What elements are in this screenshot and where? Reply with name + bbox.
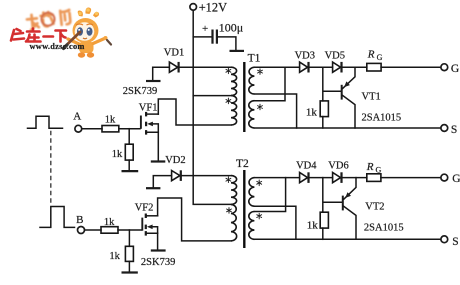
wire R5 to ground [128,261,130,271]
transistor VT2 2SA1015 [343,178,404,240]
resistor RG (top) [367,49,383,71]
node star T1 secondary w2 [258,104,263,110]
svg-text:2SA1015: 2SA1015 [364,223,404,234]
resistor R6 1k (T2) [307,212,329,231]
wire VD4 to VD6 [310,177,333,179]
wire junction drop to w2 top [254,67,285,101]
svg-text:1k: 1k [307,220,319,232]
wire R6 to S rail [322,228,324,239]
svg-text:S: S [451,124,457,136]
transistor VF1 [139,103,159,161]
svg-text:VD2: VD2 [165,155,185,166]
terminal +12V [190,0,227,14]
wire junction drop to 1k and VT1 base [323,67,341,101]
diode VD2 [165,155,185,181]
resistor R2 1k (pulldown A) [112,144,133,160]
svg-text:1k: 1k [306,107,318,119]
svg-text:VF2: VF2 [135,203,154,214]
svg-text:1k: 1k [109,251,120,262]
node star T1 primary w2 [226,98,231,104]
terminal S (bottom) [441,236,459,248]
terminal S (top) [441,124,457,136]
wire junction drop to 1k and VT2 base [323,178,343,213]
svg-text:S: S [452,236,458,248]
svg-text:VD5: VD5 [325,51,345,62]
svg-text:+: + [202,23,208,35]
svg-text:G: G [377,53,383,62]
diode VD3 [295,51,315,73]
transformer T1 [231,52,261,132]
svg-text:T1: T1 [248,52,261,64]
capacitor C1 100u [202,21,243,44]
svg-text:A: A [73,111,81,123]
wire VD2 anode to ground [153,176,171,187]
transistor VT1 2SA1015 [342,67,401,128]
wire +12V rail down to T2 center tap [193,10,231,204]
ground (R5) [122,271,138,273]
wire RG to G [381,66,441,68]
wire junction drop to w2 top [254,178,285,212]
wire T1 primary center tap [193,95,231,97]
svg-text:2SK739: 2SK739 [123,86,157,97]
terminal B [76,214,84,234]
wire A to R1 [82,128,102,130]
node star T1 secondary w1 [258,69,263,75]
wire cap branch [193,36,211,38]
wire RG to G [381,177,441,179]
svg-text:100μ: 100μ [219,21,243,35]
wire T1 sec w1 bottom to S rail [254,94,296,128]
svg-text:2SA1015: 2SA1015 [362,113,402,124]
terminal G (top) [441,63,459,75]
svg-text:+12V: +12V [199,0,227,14]
svg-text:1k: 1k [104,217,115,228]
wire VD3 to VD5 [310,66,333,68]
pulse waveform B [40,207,75,228]
svg-text:1k: 1k [105,115,116,126]
svg-text:VD4: VD4 [296,161,317,172]
wire T2 sec w1 top to VD4 [254,177,299,179]
diode VD4 [296,161,317,183]
node star T2 primary w2 [227,208,232,214]
wire VD1 anode to ground [153,67,170,80]
wire T1 sec w1 top to VD3 [254,66,299,68]
svg-text:G: G [452,173,460,185]
transformer T2 [231,158,254,248]
node star T2 primary w1 [226,177,231,183]
svg-text:VD1: VD1 [164,47,184,58]
diode VD6 [328,161,348,183]
svg-text:R: R [367,49,375,61]
wire R2 to ground [128,160,130,170]
svg-text:VD6: VD6 [328,161,348,172]
svg-text:VT2: VT2 [365,201,384,212]
wire VD1 to T1 primary w1 top (crosses rail) [180,66,231,68]
wire T2 sec w1 bottom to S rail [254,206,296,239]
wire S rail (bottom) [254,238,440,240]
resistor R4 1k (series B) [101,217,118,233]
wire cap to ground [218,37,236,50]
svg-text:VT1: VT1 [362,92,381,103]
svg-text:VF1: VF1 [139,103,158,114]
svg-text:VD3: VD3 [295,51,315,62]
node star T1 primary w1 [226,68,231,74]
ground (cap) [230,50,245,52]
svg-text:G: G [451,63,459,75]
terminal G (bottom) [441,173,460,185]
wire VD5 to RG [343,66,367,68]
terminal A [73,111,81,132]
node star T2 secondary w1 [257,180,262,186]
WATERMARK dzsc logo [11,7,111,57]
resistor R5 1k (pulldown B) [109,246,133,262]
wire R1 to VF1 gate [119,128,140,130]
wire VF2 drain jog to T2 primary w2 bottom [158,198,231,241]
transistor VF2 [135,203,158,250]
svg-text:R: R [366,161,374,173]
pulse waveform A [28,116,63,128]
wire S rail (top) [254,127,440,129]
ground (R2) [122,170,139,172]
resistor RG (bottom) [366,161,382,182]
diode VD1 [164,47,184,72]
wire junction riser to R5 [128,230,130,246]
node star T2 secondary w2 [257,213,262,219]
wire R4 to VF2 gate [118,229,141,231]
svg-text:B: B [76,214,83,226]
wire junction riser to R2 [128,129,130,145]
ground (VD1) [146,80,161,82]
resistor R3 1k (T1) [306,101,329,119]
wire B to R4 [85,229,101,231]
svg-text:T2: T2 [236,158,249,170]
svg-text:G: G [376,165,382,174]
wire R3 to S rail [322,117,324,128]
ground (VD2) [146,187,160,189]
wire VF1 drain jog to T1 primary w2 bottom [158,99,231,125]
diode VD5 [325,51,345,73]
svg-text:1k: 1k [112,149,123,160]
ground (VF2 source) [151,249,166,251]
dashed timing line [50,131,52,204]
resistor R1 1k (series A) [102,115,119,132]
wire VD6 to RG [343,177,367,179]
svg-text:www.dzsc.com: www.dzsc.com [30,42,85,51]
svg-text:2SK739: 2SK739 [141,257,175,268]
wire VD2 to T2 primary w1 top (crosses rail) [182,175,231,177]
ground (VF1 source) [151,160,166,162]
